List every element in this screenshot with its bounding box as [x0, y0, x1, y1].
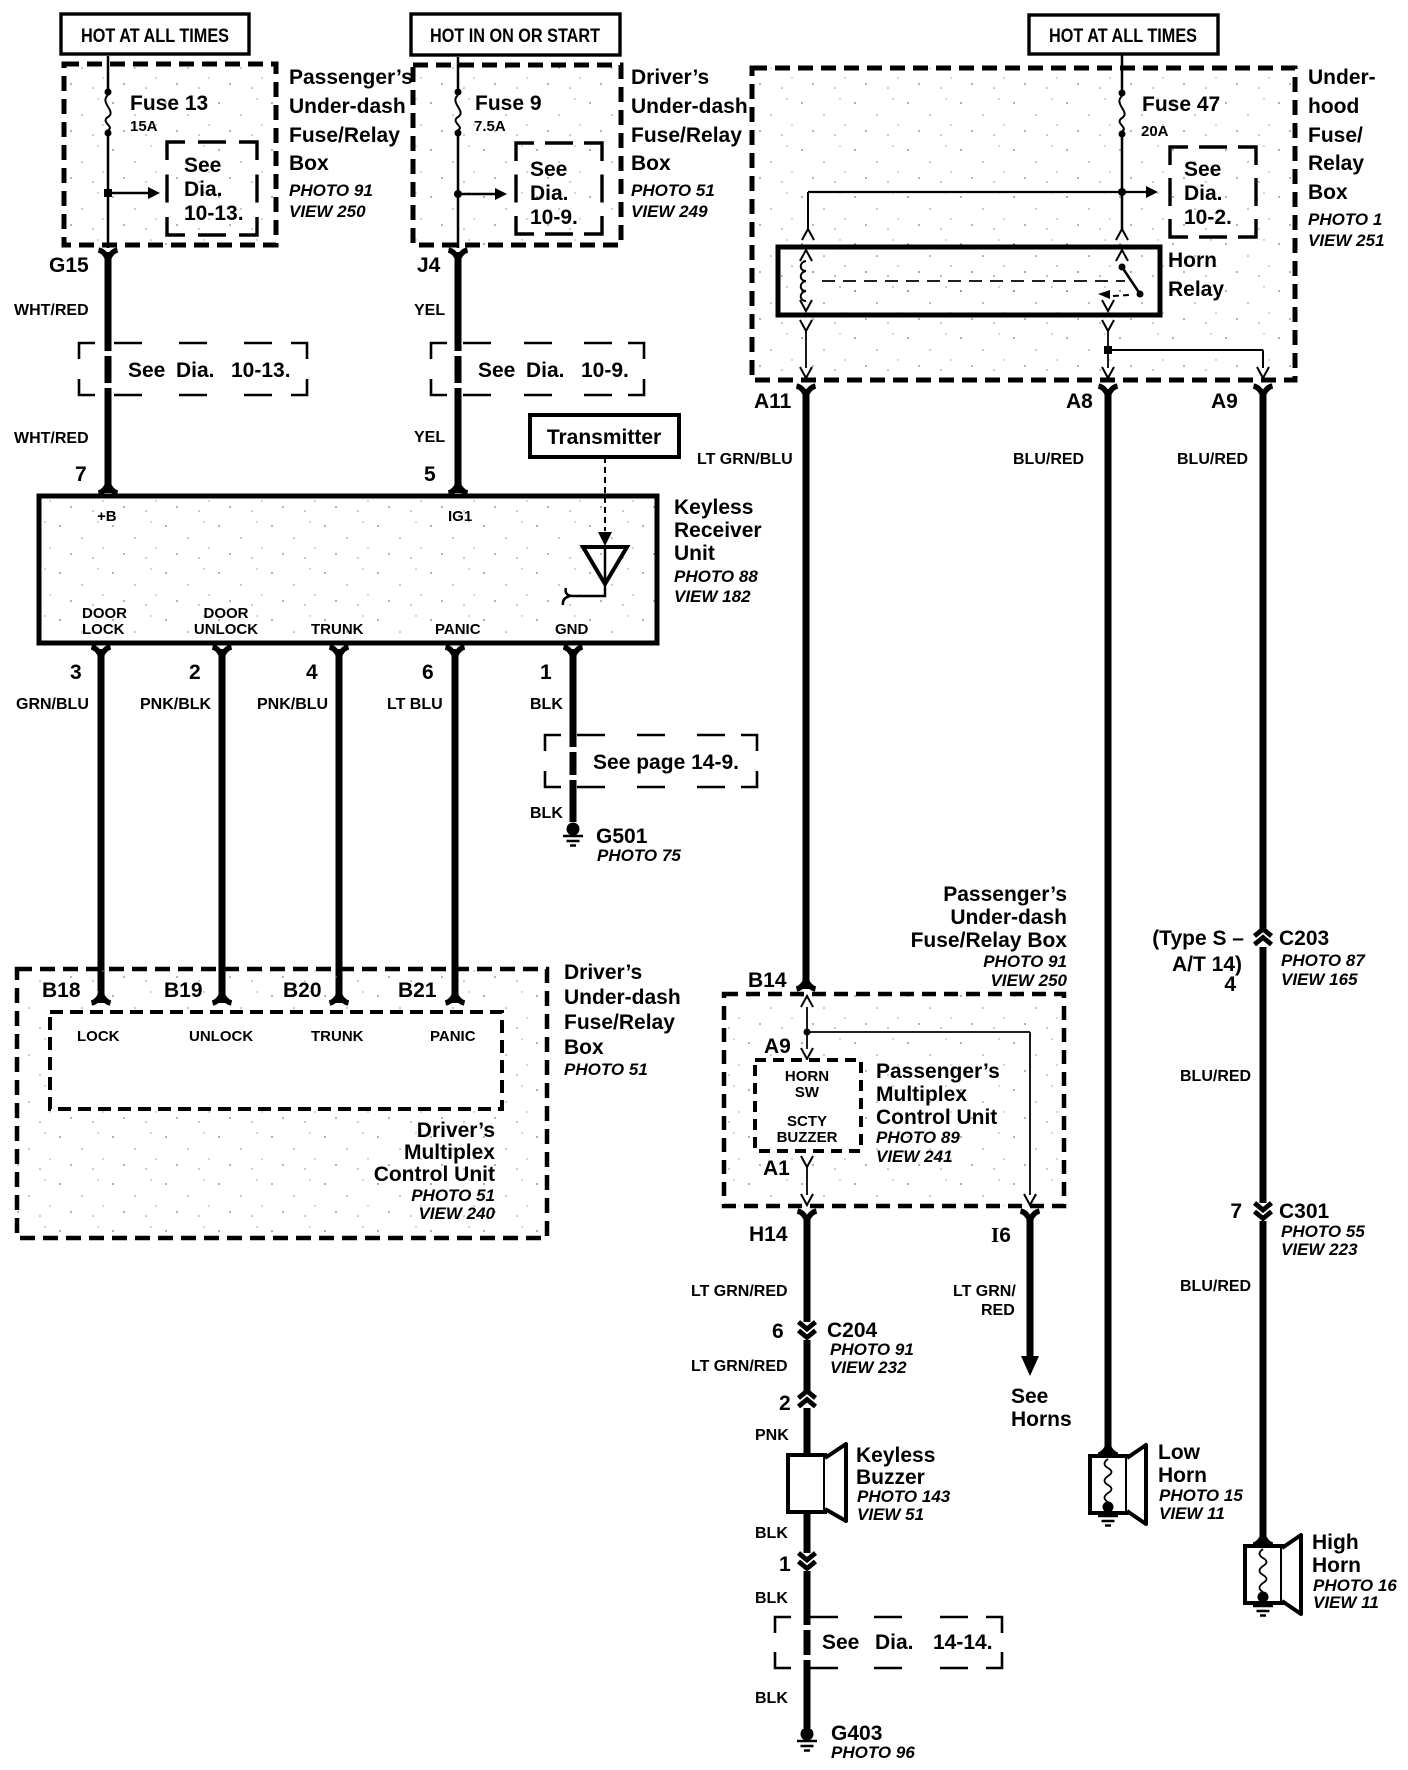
svg-text:H14: H14 [749, 1223, 788, 1246]
svg-text:LT GRN/BLU: LT GRN/BLU [697, 451, 793, 468]
svg-text:6: 6 [422, 661, 434, 684]
svg-text:VIEW 249: VIEW 249 [631, 202, 708, 221]
svg-text:G501: G501 [596, 825, 648, 848]
svg-text:BLK: BLK [755, 1690, 788, 1707]
svg-text:Control Unit: Control Unit [876, 1106, 997, 1129]
svg-text:Dia.: Dia. [176, 359, 215, 382]
svg-text:Relay: Relay [1308, 152, 1364, 175]
svg-text:Dia.: Dia. [184, 178, 223, 201]
svg-text:Fuse/Relay: Fuse/Relay [564, 1011, 675, 1034]
svg-text:VIEW 241: VIEW 241 [876, 1147, 953, 1166]
svg-text:PHOTO 91: PHOTO 91 [830, 1340, 914, 1359]
svg-text:GRN/BLU: GRN/BLU [16, 696, 89, 713]
svg-text:A11: A11 [754, 390, 792, 413]
svg-text:LT GRN/RED: LT GRN/RED [691, 1358, 788, 1375]
svg-text:B19: B19 [164, 979, 203, 1002]
svg-text:See page 14-9.: See page 14-9. [593, 751, 739, 774]
svg-text:SW: SW [795, 1084, 820, 1101]
svg-text:Fuse/Relay Box: Fuse/Relay Box [911, 929, 1068, 952]
svg-text:VIEW 223: VIEW 223 [1281, 1240, 1358, 1259]
svg-text:B20: B20 [283, 979, 322, 1002]
svg-text:HOT AT ALL TIMES: HOT AT ALL TIMES [81, 26, 229, 47]
svg-text:HOT AT ALL TIMES: HOT AT ALL TIMES [1049, 26, 1197, 47]
svg-text:Passenger’s: Passenger’s [876, 1060, 1000, 1083]
svg-text:BUZZER: BUZZER [777, 1129, 838, 1146]
svg-text:10-9.: 10-9. [581, 359, 629, 382]
svg-text:A8: A8 [1066, 390, 1093, 413]
svg-text:A1: A1 [763, 1157, 790, 1180]
svg-text:Multiplex: Multiplex [876, 1083, 967, 1106]
svg-text:hood: hood [1308, 95, 1359, 118]
svg-text:See: See [128, 359, 165, 382]
svg-text:PHOTO 51: PHOTO 51 [631, 181, 715, 200]
svg-text:PNK: PNK [755, 1427, 789, 1444]
svg-text:Dia.: Dia. [1184, 182, 1223, 205]
svg-text:Box: Box [1308, 181, 1348, 204]
svg-text:WHT/RED: WHT/RED [14, 430, 89, 447]
svg-text:C204: C204 [827, 1319, 878, 1342]
svg-text:Driver’s: Driver’s [417, 1119, 495, 1142]
svg-text:I6: I6 [991, 1223, 1011, 1247]
svg-text:VIEW 251: VIEW 251 [1308, 231, 1385, 250]
svg-text:4: 4 [1224, 973, 1236, 996]
svg-text:Box: Box [631, 152, 671, 175]
svg-text:15A: 15A [130, 118, 158, 135]
svg-text:Dia.: Dia. [526, 359, 565, 382]
svg-text:GND: GND [555, 621, 589, 638]
svg-text:C301: C301 [1279, 1200, 1330, 1223]
svg-text:G15: G15 [49, 254, 89, 277]
svg-text:LT GRN/: LT GRN/ [953, 1283, 1016, 1300]
svg-text:Keyless: Keyless [674, 496, 753, 519]
svg-text:3: 3 [70, 661, 82, 684]
svg-text:10-2.: 10-2. [1184, 206, 1232, 229]
svg-text:Driver’s: Driver’s [564, 961, 642, 984]
svg-text:LOCK: LOCK [77, 1028, 120, 1045]
svg-text:Buzzer: Buzzer [856, 1466, 925, 1489]
svg-text:Passenger’s: Passenger’s [289, 66, 413, 89]
svg-text:Fuse 13: Fuse 13 [130, 92, 208, 115]
svg-text:PANIC: PANIC [430, 1028, 476, 1045]
svg-text:PHOTO 51: PHOTO 51 [411, 1186, 495, 1205]
svg-text:VIEW 11: VIEW 11 [1313, 1593, 1379, 1612]
svg-text:5: 5 [424, 463, 436, 486]
svg-text:Horn: Horn [1312, 1554, 1361, 1577]
svg-text:PANIC: PANIC [435, 621, 481, 638]
svg-text:PHOTO 55: PHOTO 55 [1281, 1222, 1365, 1241]
svg-text:Fuse 47: Fuse 47 [1142, 93, 1220, 116]
svg-text:J4: J4 [417, 254, 441, 277]
svg-text:BLU/RED: BLU/RED [1013, 451, 1084, 468]
svg-text:(Type S –: (Type S – [1152, 927, 1244, 950]
svg-text:Under-dash: Under-dash [950, 906, 1067, 929]
svg-text:Horns: Horns [1011, 1408, 1072, 1431]
svg-text:UNLOCK: UNLOCK [194, 621, 258, 638]
svg-text:A9: A9 [764, 1035, 791, 1058]
svg-text:See: See [478, 359, 515, 382]
svg-text:LOCK: LOCK [82, 621, 125, 638]
svg-text:RED: RED [981, 1302, 1015, 1319]
svg-text:Multiplex: Multiplex [404, 1141, 495, 1164]
svg-text:B18: B18 [42, 979, 81, 1002]
svg-text:PHOTO 15: PHOTO 15 [1159, 1486, 1243, 1505]
svg-text:A9: A9 [1211, 390, 1238, 413]
svg-text:7: 7 [75, 463, 87, 486]
svg-text:See: See [822, 1631, 859, 1654]
svg-text:Under-dash: Under-dash [289, 95, 406, 118]
svg-text:PNK/BLU: PNK/BLU [257, 696, 328, 713]
svg-text:HORN: HORN [785, 1068, 829, 1085]
svg-text:VIEW 165: VIEW 165 [1281, 970, 1358, 989]
svg-text:DOOR: DOOR [204, 605, 249, 622]
svg-text:2: 2 [189, 661, 201, 684]
svg-text:Fuse 9: Fuse 9 [475, 92, 542, 115]
svg-text:SCTY: SCTY [787, 1113, 827, 1130]
svg-text:See: See [184, 154, 221, 177]
svg-text:HOT IN ON OR START: HOT IN ON OR START [430, 26, 600, 47]
svg-text:VIEW 240: VIEW 240 [418, 1204, 495, 1223]
svg-text:Box: Box [564, 1036, 604, 1059]
svg-text:PHOTO 91: PHOTO 91 [289, 181, 373, 200]
svg-text:High: High [1312, 1531, 1359, 1554]
svg-text:2: 2 [779, 1392, 791, 1415]
svg-text:PNK/BLK: PNK/BLK [140, 696, 212, 713]
svg-text:Unit: Unit [674, 542, 715, 565]
svg-text:Fuse/Relay: Fuse/Relay [631, 124, 742, 147]
svg-text:BLU/RED: BLU/RED [1177, 451, 1248, 468]
svg-text:Keyless: Keyless [856, 1444, 935, 1467]
svg-text:G403: G403 [831, 1722, 882, 1745]
svg-text:Under-dash: Under-dash [631, 95, 748, 118]
svg-text:UNLOCK: UNLOCK [189, 1028, 253, 1045]
svg-text:WHT/RED: WHT/RED [14, 302, 89, 319]
svg-text:Box: Box [289, 152, 329, 175]
svg-text:Horn: Horn [1158, 1464, 1207, 1487]
svg-text:VIEW 250: VIEW 250 [990, 971, 1067, 990]
svg-text:1: 1 [540, 661, 552, 684]
svg-text:IG1: IG1 [448, 508, 472, 525]
svg-text:PHOTO 143: PHOTO 143 [857, 1487, 951, 1506]
svg-text:Control Unit: Control Unit [374, 1163, 495, 1186]
svg-text:BLK: BLK [755, 1525, 788, 1542]
svg-text:See: See [1184, 158, 1221, 181]
svg-text:DOOR: DOOR [82, 605, 127, 622]
svg-text:Receiver: Receiver [674, 519, 762, 542]
svg-text:20A: 20A [1141, 123, 1169, 140]
svg-text:See: See [530, 158, 567, 181]
svg-text:YEL: YEL [414, 302, 445, 319]
svg-text:7: 7 [1230, 1200, 1242, 1223]
svg-text:PHOTO 91: PHOTO 91 [983, 952, 1067, 971]
svg-text:10-13.: 10-13. [231, 359, 291, 382]
svg-text:Fuse/Relay: Fuse/Relay [289, 124, 400, 147]
svg-text:PHOTO 75: PHOTO 75 [597, 846, 681, 865]
svg-text:BLU/RED: BLU/RED [1180, 1278, 1251, 1295]
svg-text:+B: +B [97, 508, 117, 525]
svg-text:See: See [1011, 1385, 1048, 1408]
svg-text:Transmitter: Transmitter [547, 426, 661, 449]
svg-text:Fuse/: Fuse/ [1308, 124, 1363, 147]
svg-text:VIEW 232: VIEW 232 [830, 1358, 907, 1377]
svg-text:LT GRN/RED: LT GRN/RED [691, 1283, 788, 1300]
svg-text:Low: Low [1158, 1441, 1201, 1464]
svg-text:PHOTO 88: PHOTO 88 [674, 567, 758, 586]
svg-text:6: 6 [772, 1320, 784, 1343]
svg-text:BLK: BLK [530, 696, 563, 713]
svg-text:C203: C203 [1279, 927, 1329, 950]
svg-text:Under-dash: Under-dash [564, 986, 681, 1009]
svg-text:Passenger’s: Passenger’s [943, 883, 1067, 906]
svg-text:B14: B14 [748, 969, 787, 992]
svg-text:LT BLU: LT BLU [387, 696, 443, 713]
svg-text:10-13.: 10-13. [184, 202, 244, 225]
svg-text:PHOTO 96: PHOTO 96 [831, 1743, 915, 1762]
svg-text:Horn: Horn [1168, 249, 1217, 272]
svg-text:BLK: BLK [530, 805, 563, 822]
svg-text:PHOTO 89: PHOTO 89 [876, 1128, 960, 1147]
svg-text:1: 1 [779, 1553, 791, 1576]
svg-text:TRUNK: TRUNK [311, 621, 364, 638]
svg-text:VIEW 11: VIEW 11 [1159, 1504, 1225, 1523]
svg-text:YEL: YEL [414, 429, 445, 446]
svg-text:7.5A: 7.5A [474, 118, 506, 135]
svg-text:BLK: BLK [755, 1590, 788, 1607]
svg-text:10-9.: 10-9. [530, 206, 578, 229]
svg-text:Relay: Relay [1168, 278, 1224, 301]
svg-text:BLU/RED: BLU/RED [1180, 1068, 1251, 1085]
svg-text:B21: B21 [398, 979, 437, 1002]
svg-text:14-14.: 14-14. [933, 1631, 993, 1654]
svg-text:VIEW 51: VIEW 51 [857, 1505, 924, 1524]
svg-text:VIEW 182: VIEW 182 [674, 587, 751, 606]
svg-text:Dia.: Dia. [875, 1631, 914, 1654]
svg-text:Driver’s: Driver’s [631, 66, 709, 89]
svg-text:4: 4 [306, 661, 318, 684]
svg-text:PHOTO 1: PHOTO 1 [1308, 210, 1382, 229]
svg-text:PHOTO 87: PHOTO 87 [1281, 951, 1366, 970]
svg-text:Dia.: Dia. [530, 182, 569, 205]
svg-text:Under-: Under- [1308, 66, 1376, 89]
svg-text:VIEW 250: VIEW 250 [289, 202, 366, 221]
svg-text:PHOTO 51: PHOTO 51 [564, 1060, 648, 1079]
svg-text:TRUNK: TRUNK [311, 1028, 364, 1045]
